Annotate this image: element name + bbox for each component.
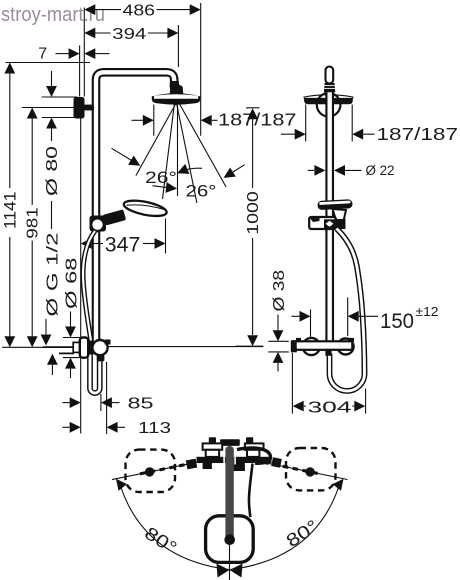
bow-tie angle arrows at bottom — [217, 564, 230, 578]
valve from top: left knob — [203, 443, 223, 449]
spray line right inner — [177, 103, 197, 203]
valve body bar (side) — [293, 341, 352, 350]
hose loop below valve (front) — [90, 350, 100, 393]
knob lower tab — [97, 355, 105, 362]
dimension 347 — [81, 233, 166, 256]
svg-text:187/187: 187/187 — [377, 124, 459, 144]
spray line right outer — [179, 103, 226, 187]
valve from top: right knob — [245, 443, 264, 449]
slider holder on bar — [90, 216, 107, 232]
dimension Ø 22 — [308, 163, 395, 178]
svg-text:Ø G 1/2: Ø G 1/2 — [45, 232, 62, 316]
supply stub pipe (front valve) — [43, 346, 74, 348]
hand shower head (front) — [123, 198, 168, 219]
valve from top: centre cap — [220, 439, 240, 446]
riser pipe (side) — [325, 83, 334, 341]
hand shower head (top view) — [206, 516, 254, 563]
svg-text:304: 304 — [308, 399, 352, 416]
dimension 304 — [293, 399, 366, 416]
extension line at hand shower end (347) — [165, 219, 167, 254]
hand shower head (side) — [317, 199, 352, 210]
head disc top line (side) — [305, 95, 353, 97]
svg-text:1141: 1141 — [1, 192, 20, 230]
valve from top: right tab — [246, 437, 253, 445]
centre line below — [229, 541, 231, 580]
dimension 981 (vertical) — [24, 108, 41, 348]
svg-text:Ø 80: Ø 80 — [44, 146, 61, 196]
svg-text:Ø 38: Ø 38 — [271, 270, 288, 312]
label 26° lower — [153, 182, 217, 201]
side head right extension line — [351, 105, 353, 142]
head disc bottom band (side) — [304, 98, 353, 104]
wall extension line L2 — [83, 8, 85, 97]
svg-text:113: 113 — [138, 420, 171, 437]
svg-text:±12: ±12 — [416, 305, 439, 319]
left 80° arc — [121, 488, 229, 570]
leader arrow right spray — [221, 165, 245, 183]
valve escutcheon (front) — [80, 338, 88, 358]
svg-text:1000: 1000 — [245, 191, 262, 235]
hand shower grip — [102, 209, 126, 225]
right arc arrowhead — [332, 475, 347, 490]
svg-text:187/187: 187/187 — [218, 110, 297, 130]
valve from top: under-bar blocks — [203, 463, 212, 469]
right swing axis line — [251, 460, 348, 480]
spray line left inner — [163, 103, 175, 199]
bracket bottom reference line — [42, 117, 76, 119]
hose (side) — [330, 229, 365, 392]
dimension Ø 80 (vertical arrows at bracket) — [44, 71, 61, 196]
valve knobs (side) — [303, 338, 320, 355]
connection nut — [73, 342, 80, 352]
valve top notches — [296, 338, 301, 342]
svg-text:85: 85 — [128, 395, 154, 412]
pin adapter — [324, 83, 335, 92]
304 extension lines — [291, 353, 293, 414]
extension line hose outer (85) — [100, 394, 102, 411]
wall extension line L1 — [79, 46, 81, 97]
hose (front, upper run) — [83, 231, 95, 341]
shower arm + slide bar pipe — [96, 72, 174, 341]
right position dot — [305, 467, 314, 476]
left dashed handle bar — [140, 460, 206, 474]
wall bracket escutcheon — [74, 97, 85, 119]
svg-text:stroy-mart.ru: stroy-mart.ru — [1, 3, 105, 26]
label 26° upper — [145, 164, 202, 187]
svg-text:7: 7 — [38, 46, 47, 63]
head left extension line — [153, 105, 155, 136]
arm pin (side) — [326, 67, 334, 84]
arm outer-bend extension line (394) — [177, 25, 179, 67]
dimension Ø G 1/2 — [41, 201, 62, 375]
right dashed handle bar — [254, 460, 320, 474]
dimension Ø 38 — [268, 270, 289, 372]
left arc arrowhead — [112, 475, 127, 490]
bracket top reference line — [42, 96, 78, 98]
overhead shower head (front) — [152, 93, 201, 104]
right 80° arc — [230, 488, 338, 570]
spray centre extension line — [177, 103, 179, 196]
valve knob (front) — [92, 340, 107, 355]
head right extension line — [200, 3, 202, 136]
handle bar (top view) — [223, 456, 225, 465]
head connector (front) — [170, 81, 180, 87]
spray line left outer — [136, 103, 176, 176]
dimension Ø 68 — [63, 257, 81, 378]
dimension 187/187 (side) — [281, 124, 458, 144]
long extension line at wall (85/113) — [80, 119, 82, 434]
dimension 85 — [63, 395, 154, 412]
ball joint (side) — [317, 93, 341, 117]
leader arrow left spray — [112, 148, 144, 170]
svg-text:26°: 26° — [186, 182, 217, 201]
dimension 1141 (vertical) — [1, 63, 20, 348]
top reference line (1141 level) — [6, 62, 91, 64]
handle end in holder — [335, 219, 346, 229]
valve from top: body bar — [197, 457, 272, 463]
extension line knob face (113) — [106, 362, 108, 434]
hose port (side) — [325, 350, 331, 356]
knob button — [105, 340, 111, 345]
side head left extension line — [305, 105, 307, 142]
valve left end cap — [291, 340, 297, 352]
left dashed square (swung head) — [126, 450, 176, 492]
bracket stub — [85, 105, 95, 111]
dimension 486 — [84, 2, 200, 19]
svg-text:80°: 80° — [283, 516, 322, 551]
extension lines for 150 — [310, 310, 312, 339]
left swing axis line — [112, 460, 208, 480]
holder pivot — [91, 218, 104, 231]
svg-text:Ø 22: Ø 22 — [366, 163, 395, 178]
holder bracket (side) — [309, 217, 336, 229]
dimension 1000 (vertical) — [236, 108, 264, 346]
dimension 394 — [84, 26, 178, 43]
dimension 150±12 — [292, 305, 439, 333]
svg-text:486: 486 — [123, 2, 156, 19]
svg-text:150: 150 — [380, 310, 414, 333]
left position dot — [145, 467, 154, 476]
dimension 7 — [38, 46, 109, 63]
svg-text:394: 394 — [112, 26, 146, 43]
981 reference line (bracket centre) — [22, 107, 78, 109]
svg-text:Ø 68: Ø 68 — [64, 257, 81, 309]
svg-text:347: 347 — [105, 233, 141, 256]
left swung knob block — [186, 459, 198, 470]
valve from top: left tab — [209, 437, 216, 445]
holder hook (top view) — [237, 448, 271, 463]
dimension 113 — [63, 420, 172, 437]
svg-text:26°: 26° — [145, 168, 177, 187]
valve centre line (front) — [2, 346, 74, 348]
svg-text:981: 981 — [24, 207, 41, 239]
dimension 187/187 (front) — [132, 110, 297, 130]
hand shower neck (side) — [333, 209, 347, 222]
valve body dark gap — [88, 341, 94, 355]
right swung knob block — [271, 457, 282, 468]
handle pivot dot — [224, 534, 235, 545]
right dashed square (swung head) — [286, 448, 336, 490]
